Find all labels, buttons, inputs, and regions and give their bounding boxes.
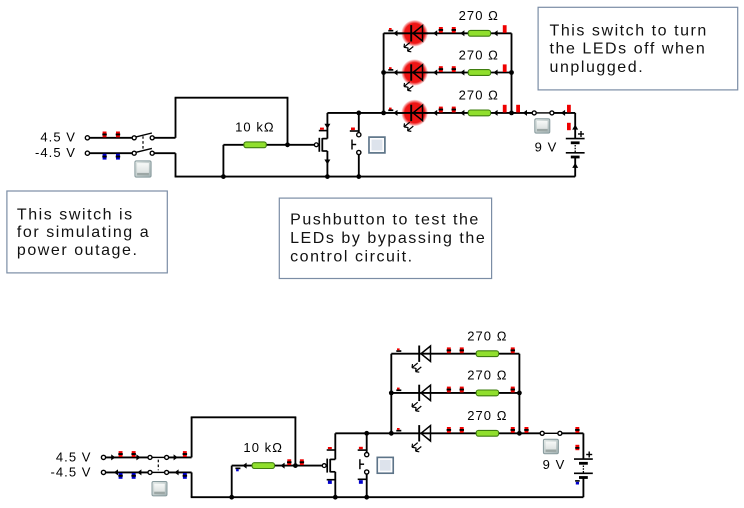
- switch S4 closed (bottom): [540, 431, 562, 435]
- current arrow row2 b (top): [433, 70, 437, 76]
- annotation box: This switch is for simulating a power outage.: [7, 191, 167, 273]
- wire switch to corner, up to control box (top): [154, 137, 175, 139]
- ground/return bus (top): [175, 176, 576, 178]
- voltage marker right of bus node (top): [516, 105, 520, 113]
- LED row3 wire (top): [384, 112, 512, 114]
- LED row1 wire (bottom): [391, 353, 519, 355]
- LED row3 left wire (bottom): [335, 432, 391, 434]
- current arrows left on gate row (bottom): [242, 463, 246, 469]
- gate row wire + resistor R8 10k (bottom): [232, 465, 323, 467]
- switch S2 closed (top, LED disconnect switch): [532, 111, 554, 115]
- annotation box: This switch to turn the LEDs off when unplugged.: [538, 7, 738, 90]
- svg-text:for simulating a: for simulating a: [17, 224, 150, 241]
- current arrow up on battery lower lead (top): [572, 163, 578, 168]
- svg-text:9 V: 9 V: [535, 140, 558, 155]
- Q1 drain wire up to LED row (top): [326, 113, 328, 139]
- gray button graphic for S2 (top): [535, 119, 550, 133]
- terminal + input wire -4.5V (top circuit): [90, 152, 133, 154]
- current arrow row1 b (top): [433, 30, 437, 36]
- voltage marker row3 right (top): [503, 105, 507, 113]
- current arrow row3 b (top): [433, 110, 437, 116]
- node: right bus row2 (bottom): [517, 391, 522, 396]
- battery B2 9V (bottom): [574, 458, 593, 460]
- LED parallel right bus (top): [511, 33, 513, 113]
- voltage marker before corner (top): [567, 105, 571, 113]
- svg-text:This switch is: This switch is: [17, 206, 134, 223]
- svg-text:This switch to turn: This switch to turn: [550, 22, 708, 39]
- current arrow row3 right (top): [523, 110, 527, 116]
- voltage markers on -4.5V wire (top): [103, 154, 107, 160]
- current arrow down on source (top): [324, 160, 330, 165]
- voltage marker at Q2 drain (bottom): [327, 449, 336, 451]
- node: PB2 top (bottom): [364, 431, 369, 436]
- svg-text:LEDs by bypassing the: LEDs by bypassing the: [290, 230, 486, 247]
- gray button graphic for S3 (bottom): [152, 482, 167, 496]
- voltage markers at gate junction (bottom): [287, 459, 291, 465]
- LED D3 lit (top): [401, 100, 428, 127]
- voltage markers row3 mid (top): [439, 107, 443, 113]
- wire down to gate node (bottom): [294, 417, 296, 465]
- node: left bus row3 (bottom): [389, 431, 394, 436]
- node: 10k-bus junction (bottom): [229, 495, 234, 500]
- voltage marker at PB1 top (top): [350, 130, 359, 132]
- node: PB1 bottom on bus (top): [356, 174, 361, 179]
- resistor 270 row3 (bottom): [476, 430, 498, 436]
- voltage marker on battery top lead (bottom): [575, 445, 579, 450]
- transistor Q1 MOSFET (top): [314, 143, 318, 147]
- voltage marker at 10k left corner (bottom): [235, 468, 240, 470]
- Q2 drain wire up to LED row (bottom): [334, 433, 336, 459]
- voltage marker row1 right (top): [503, 25, 507, 33]
- switch S1 DPST open (top circuit, simulates power outage): [132, 133, 154, 155]
- svg-text:the LEDs off when: the LEDs off when: [550, 41, 707, 58]
- node: right bus row3 (bottom): [517, 431, 522, 436]
- terminal + input wire 4.5V (top circuit): [90, 137, 133, 139]
- svg-text:-4.5 V: -4.5 V: [35, 145, 76, 160]
- LED parallel left bus (bottom): [390, 354, 392, 434]
- voltage marker after S3 bottom pole (bottom): [183, 473, 187, 479]
- LED row2 wire (bottom): [391, 392, 519, 394]
- node: Q1 source on bus (top): [325, 174, 330, 179]
- pushbutton PB1 (top): [358, 113, 360, 133]
- current arrows right on 4.5V wire (bottom): [111, 454, 115, 460]
- svg-text:270 Ω: 270 Ω: [459, 88, 499, 103]
- svg-text:10 kΩ: 10 kΩ: [243, 440, 283, 455]
- LED D6 unlit (bottom): [418, 385, 420, 401]
- current arrow down on drain (top): [324, 124, 330, 129]
- gray button graphic for S4 (bottom): [543, 439, 558, 453]
- pushbutton PB2 (bottom): [366, 433, 368, 452]
- voltage marker on battery lower lead (bottom): [575, 480, 580, 482]
- node: right bus row3 (top): [509, 111, 514, 116]
- node: gate junction (bottom): [293, 463, 298, 468]
- node: PB2 bottom on bus (bottom): [364, 495, 369, 500]
- transistor Q2 MOSFET (bottom): [322, 464, 326, 468]
- wire top control loop horizontal (top): [175, 97, 289, 99]
- voltage marker right of bus node (bottom): [525, 427, 529, 433]
- current arrow row2 d (top): [493, 70, 497, 76]
- voltage markers on 4.5V wire (bottom): [119, 451, 123, 457]
- current arrow after S3 bottom pole (bottom): [174, 469, 178, 475]
- node: gate junction (top): [285, 142, 290, 147]
- LED row3 left wire (top): [327, 112, 383, 114]
- gate row wire + resistor R4 10k (top): [223, 144, 314, 146]
- marker at LED row2 cathode (top): [388, 69, 393, 71]
- svg-text:270 Ω: 270 Ω: [459, 8, 499, 23]
- svg-text:4.5 V: 4.5 V: [56, 449, 92, 464]
- wire down to gate node (top): [287, 98, 289, 145]
- current arrow row2 c (top): [460, 70, 464, 76]
- voltage markers on -4.5V wire (bottom): [119, 473, 123, 479]
- gray button graphic for switch S1 (top): [135, 161, 151, 177]
- LED row1 wire (top): [384, 32, 512, 34]
- LED row2 wire (top): [384, 72, 512, 74]
- wire S3 bottom pole to corner, down to bus (bottom): [169, 471, 192, 473]
- annotation box: Pushbutton to test the LEDs by bypassing the control circuit.: [279, 198, 491, 278]
- wire 10k left lead down to bus (bottom): [231, 466, 233, 498]
- marker at LED cathode row1 (bottom): [396, 350, 401, 352]
- voltage markers mid row2 (bottom): [447, 387, 451, 393]
- svg-text:270 Ω: 270 Ω: [459, 47, 499, 62]
- voltage markers mid row3 (bottom): [447, 427, 451, 433]
- LED D5 unlit (bottom): [418, 346, 420, 362]
- current arrow row3 a (top): [393, 110, 397, 116]
- blue-gray button graphic for PB1 (top): [369, 137, 385, 153]
- svg-text:270 Ω: 270 Ω: [467, 408, 507, 423]
- node: right bus row2 (top): [509, 70, 514, 75]
- blue-gray button graphic for PB2 (bottom): [377, 457, 393, 473]
- LED D1 lit (top): [401, 20, 428, 47]
- voltage marker row2 right (top): [503, 64, 507, 72]
- row3 wire right of bus to switch S4 (bottom): [519, 432, 540, 434]
- wire switch to corner, down to ground bus (top): [154, 152, 175, 154]
- terminal + input wire -4.5V (bottom circuit): [106, 471, 148, 473]
- voltage marker at PB2 bottom (bottom): [358, 479, 367, 481]
- wire top control loop horizontal (bottom): [191, 416, 297, 418]
- current arrow row2 a (top): [393, 70, 397, 76]
- current arrow row1 c (top): [460, 30, 464, 36]
- marker at LED row1 cathode (top): [388, 30, 393, 32]
- node: 10k-bus junction (top): [221, 174, 226, 179]
- resistor R3 270 (top): [468, 110, 490, 116]
- voltage markers mid row1 (bottom): [447, 347, 451, 353]
- voltage marker at Q1 drain (top): [319, 130, 328, 132]
- current arrow up on battery lead (top): [572, 125, 578, 130]
- svg-text:10 kΩ: 10 kΩ: [235, 119, 275, 134]
- voltage marker after S3 top pole (bottom): [183, 451, 187, 457]
- LED row3 wire (bottom): [391, 432, 519, 434]
- LED D7 unlit (bottom): [418, 425, 420, 441]
- current arrow row3 d (top): [493, 110, 497, 116]
- voltage markers on 4.5V wire (top): [103, 132, 107, 138]
- svg-text:9 V: 9 V: [543, 457, 566, 472]
- LED parallel left bus (top): [383, 33, 385, 113]
- switch S3 DPST closed (bottom circuit): [148, 455, 169, 474]
- svg-text:-4.5 V: -4.5 V: [51, 465, 92, 480]
- svg-text:unplugged.: unplugged.: [550, 59, 645, 76]
- resistor R2 270 (top): [468, 70, 490, 76]
- node: Q2 source on bus (bottom): [333, 495, 338, 500]
- resistor 270 row2 (bottom): [476, 390, 498, 396]
- svg-text:270 Ω: 270 Ω: [467, 368, 507, 383]
- terminal + input wire 4.5V (bottom circuit): [106, 456, 148, 458]
- voltage marker right row2 (bottom): [511, 387, 515, 393]
- marker at LED row3 cathode (top): [388, 109, 393, 111]
- marker at LED cathode row2 (bottom): [396, 389, 401, 391]
- battery B1 top lead (top): [574, 113, 576, 139]
- wire S2 to corner (top): [554, 112, 575, 114]
- voltage marker at PB2 top (bottom): [358, 449, 367, 451]
- node: left bus row2 (bottom): [389, 391, 394, 396]
- wire 10k left lead down to bus (top): [222, 145, 224, 177]
- voltage marker before corner (bottom): [575, 427, 579, 433]
- voltage markers row2 mid (top): [439, 66, 443, 72]
- current arrow after S3 top pole (bottom): [174, 454, 178, 460]
- voltage marker right row1 (bottom): [511, 347, 515, 353]
- voltage marker right row3 (bottom): [511, 427, 515, 433]
- Q2 source wire down to bus (bottom): [334, 472, 336, 497]
- battery B1 lower lead (top): [574, 157, 576, 177]
- resistor R1 270 (top): [468, 30, 490, 36]
- svg-text:Pushbutton to test the: Pushbutton to test the: [290, 212, 480, 229]
- resistor 270 row1 (bottom): [476, 351, 498, 357]
- marker at LED cathode row3 (bottom): [396, 430, 401, 432]
- wire S4 to corner (bottom): [562, 432, 583, 434]
- node: left bus row2 (top): [381, 70, 386, 75]
- node: left bus row3 (top): [381, 111, 386, 116]
- voltage marker on battery top lead (top): [567, 123, 571, 130]
- Q1 source wire down to bus (top): [326, 151, 328, 177]
- LED D2 lit (top): [401, 59, 428, 86]
- svg-text:270 Ω: 270 Ω: [467, 329, 507, 344]
- battery B1 9V (top): [566, 138, 585, 140]
- voltage markers row1 mid (top): [439, 27, 443, 33]
- battery B2 top lead (bottom): [582, 433, 584, 459]
- svg-text:4.5 V: 4.5 V: [40, 130, 76, 145]
- voltage marker at Q2 source (bottom): [327, 479, 336, 481]
- current arrow row1 d (top): [493, 30, 497, 36]
- svg-text:control circuit.: control circuit.: [290, 249, 414, 266]
- current arrows left on -4.5V wire (bottom): [114, 469, 118, 475]
- current arrow after S2 (top): [561, 110, 565, 116]
- ground/return bus (bottom): [191, 496, 584, 498]
- battery B2 lower lead (bottom): [582, 478, 584, 498]
- LED parallel right bus (bottom): [518, 354, 520, 434]
- row3 wire right of bus to switch S2 (top): [512, 112, 533, 114]
- svg-text:power outage.: power outage.: [17, 242, 139, 259]
- wire S3 top pole to corner, up to control box (bottom): [169, 456, 192, 458]
- current arrow row1 a (top): [393, 30, 397, 36]
- current arrow row3 c (top): [460, 110, 464, 116]
- node: PB1 top (top): [356, 111, 361, 116]
